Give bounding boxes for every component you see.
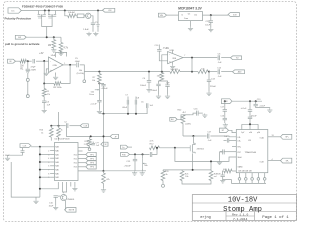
op-amp U1A bbox=[49, 57, 64, 73]
node OUT2 flag bbox=[233, 70, 245, 74]
svg-text:2N7002: 2N7002 bbox=[197, 148, 205, 150]
capacitor C18 0.1uF bbox=[249, 101, 251, 109]
wire C2 to opamp bbox=[36, 60, 49, 62]
wire long vertical rail to PIC area bbox=[103, 114, 105, 171]
resistor R2 10k bbox=[65, 11, 68, 16]
connector J3 input jack bbox=[8, 59, 16, 63]
svg-text:C2: C2 bbox=[64, 121, 66, 123]
svg-text:SEdif: SEdif bbox=[238, 157, 243, 159]
svg-text:GAIN0: GAIN0 bbox=[238, 166, 243, 169]
wire regulator output bbox=[203, 14, 229, 16]
svg-text:RA3: RA3 bbox=[55, 146, 59, 149]
wire U1B minus input bbox=[162, 55, 168, 72]
pin PIC left 2 bbox=[50, 150, 54, 152]
resistor R23 bbox=[162, 169, 164, 172]
pin PIC left 7 bbox=[50, 169, 54, 171]
svg-text:In: In bbox=[182, 14, 184, 16]
wire bottom rail row bbox=[104, 170, 147, 172]
capacitor C15 10uF bbox=[210, 15, 212, 20]
capacitor C3 comp over opamp bbox=[56, 52, 60, 57]
wire divider top bbox=[163, 169, 211, 171]
capacitor C12b 0.1uF bbox=[92, 142, 94, 143]
node JP flag bbox=[110, 134, 118, 138]
svg-text:50k R11: 50k R11 bbox=[171, 69, 180, 71]
node input rail junctions bbox=[44, 10, 46, 12]
svg-text:MCP1804T 3.3V: MCP1804T 3.3V bbox=[178, 7, 202, 11]
pin PIC left 9 bbox=[50, 176, 54, 178]
wire bus tap bbox=[40, 169, 50, 171]
capacitor C6 out coupling bbox=[217, 55, 219, 60]
svg-text:C16: C16 bbox=[221, 115, 224, 117]
pin TPA left 146 bbox=[232, 145, 236, 147]
capacitor C12a bbox=[65, 123, 67, 128]
pin PIC left 3 bbox=[50, 153, 54, 155]
resistor R11 50k feedback bbox=[170, 70, 180, 74]
pin PIC bottom 3 bbox=[63, 182, 67, 192]
wire to C2 bbox=[26, 60, 31, 62]
node 3V3 output flag bbox=[228, 13, 240, 17]
wire C17 to amp bbox=[210, 135, 236, 138]
svg-text:pVd: pVd bbox=[257, 132, 260, 134]
resistor R5 4.7k bbox=[60, 37, 62, 42]
svg-text:1.8uF: 1.8uF bbox=[83, 29, 89, 31]
wire U1B feedback tap bbox=[191, 58, 193, 72]
svg-text:RA1: RA1 bbox=[55, 153, 59, 156]
node pad ring bbox=[27, 74, 29, 79]
ground C8 bbox=[167, 86, 169, 94]
capacitor C7 100uF rail bbox=[99, 82, 103, 85]
pin PIC bottom 2 bbox=[63, 182, 64, 193]
ground U1B V- bbox=[172, 62, 174, 65]
resistor R4 1M bbox=[53, 37, 55, 39]
svg-text:RA0: RA0 bbox=[55, 150, 59, 153]
node PIC right flag 1 bbox=[78, 154, 86, 156]
capacitor C14 100uF bbox=[159, 81, 162, 84]
pin TPA top3 bbox=[257, 124, 259, 129]
svg-text:LIN+: LIN+ bbox=[238, 141, 242, 143]
svg-text:7: 7 bbox=[184, 55, 185, 57]
svg-text:100uF: 100uF bbox=[151, 90, 158, 92]
node PIC right flag 4 bbox=[78, 166, 86, 168]
regulator U5 box bbox=[179, 12, 203, 21]
pin PIC bottom 4 bbox=[70, 182, 72, 187]
potentiometer VR2 50k bbox=[142, 154, 144, 158]
svg-text:(10-20k): (10-20k) bbox=[77, 73, 85, 75]
svg-text:+0.1uF: +0.1uF bbox=[240, 108, 247, 110]
svg-text:6: 6 bbox=[48, 166, 49, 168]
pin TPA top1 bbox=[241, 124, 243, 129]
resistor R1A 1k above PIC bbox=[49, 128, 53, 137]
capacitor C16a bbox=[224, 111, 226, 118]
svg-text:10k: 10k bbox=[92, 80, 95, 82]
svg-text:1k: 1k bbox=[166, 174, 168, 176]
capacitor C2 0.47uF bias top bbox=[158, 45, 160, 50]
svg-text:RA1: RA1 bbox=[55, 176, 59, 179]
connector J1 DC jack bbox=[8, 8, 21, 13]
node VIN flag regulator input bbox=[158, 13, 166, 17]
capacitor C13 220uF bbox=[208, 72, 210, 80]
svg-text:SP-: SP- bbox=[286, 161, 290, 163]
wire VIN input rail bbox=[21, 10, 102, 12]
ground C10a bbox=[8, 152, 23, 156]
node pad circle bbox=[83, 72, 85, 80]
connector J2 activate bbox=[15, 35, 26, 39]
ground C10 bbox=[55, 206, 57, 208]
capacitor C2 input bbox=[32, 59, 34, 63]
wire feedback to output bbox=[61, 65, 70, 84]
svg-text:RC3: RC3 bbox=[74, 167, 77, 169]
svg-text:Polarity Protection: Polarity Protection bbox=[5, 16, 32, 20]
wire R25 top bbox=[210, 161, 212, 170]
capacitor C1 1.8uF bbox=[91, 22, 95, 24]
wire mid rail bbox=[84, 71, 170, 73]
capacitor C10a 10uF bbox=[22, 148, 24, 150]
svg-text:+100uF: +100uF bbox=[101, 88, 109, 90]
svg-text:RA4: RA4 bbox=[55, 165, 59, 168]
wire activate net bbox=[26, 36, 61, 38]
wire C20 to pin bbox=[229, 139, 237, 141]
capacitor C17a bbox=[224, 101, 226, 109]
node flag byp bbox=[220, 128, 229, 132]
pin PIC right 1 bbox=[78, 147, 90, 149]
capacitor C12 1uF gate bbox=[130, 153, 150, 155]
transistor Q5 2N7002 bbox=[189, 145, 191, 151]
pin TPA bottom 2 bbox=[245, 173, 247, 178]
wire C5 to rail bbox=[80, 65, 85, 72]
wire stub up bbox=[58, 112, 60, 126]
pin TPA bottom 1 bbox=[239, 173, 241, 178]
svg-text:1: 1 bbox=[64, 63, 65, 65]
pin PIC left 6 bbox=[50, 165, 54, 167]
ground C14 bbox=[158, 86, 160, 95]
transistor Q3 bbox=[86, 13, 91, 18]
wire rail to C14b bbox=[209, 71, 217, 73]
node SPKR- flag bbox=[281, 158, 292, 163]
wire bias row bbox=[99, 108, 147, 114]
wire gate bus bbox=[42, 19, 52, 26]
capacitor C18b 470uF bbox=[249, 111, 251, 116]
capacitor C17 0.1uF bbox=[206, 134, 208, 139]
svg-text:U5: U5 bbox=[188, 14, 190, 16]
svg-text:.1uF: .1uF bbox=[217, 62, 222, 64]
IC U4 PIC box bbox=[55, 143, 79, 181]
ground regulator COM bbox=[190, 21, 192, 27]
svg-text:10V-18V: 10V-18V bbox=[228, 197, 258, 205]
wire C18 to IC top bbox=[249, 119, 251, 130]
ground drive pot bbox=[98, 102, 100, 110]
svg-text:4: 4 bbox=[48, 158, 49, 160]
wire flag to PIC pin1 bbox=[31, 146, 55, 148]
diode D1 LED indicator bbox=[77, 14, 84, 18]
svg-text:SW: SW bbox=[18, 37, 21, 39]
ground C19 bbox=[256, 106, 270, 109]
capacitor C3 47pF shunt bbox=[27, 61, 29, 69]
capacitor C8c 1uF bbox=[145, 103, 147, 108]
resistor R18 2.2M bbox=[89, 136, 91, 139]
wire JP row bbox=[66, 128, 110, 136]
svg-text:+3V: +3V bbox=[39, 52, 44, 55]
svg-text:470uF: 470uF bbox=[251, 115, 257, 117]
wire mute feedback bbox=[175, 148, 236, 162]
resistor R24 10k bbox=[181, 169, 183, 172]
wire CLS row bbox=[51, 125, 65, 127]
svg-text:MUTE: MUTE bbox=[69, 210, 75, 212]
svg-text:47pF: 47pF bbox=[31, 66, 37, 68]
node PIC right flag 2 bbox=[78, 158, 86, 160]
svg-text:TPA6021A4: TPA6021A4 bbox=[244, 151, 256, 154]
svg-text:1M: 1M bbox=[20, 66, 23, 68]
capacitor C6a 0.1uF drive bbox=[98, 95, 100, 100]
svg-text:.68uF: .68uF bbox=[75, 61, 81, 63]
op-amp U1B bbox=[168, 52, 183, 64]
transistor Q2 P-MOSFET bbox=[48, 11, 50, 15]
wire regulator input bbox=[167, 14, 179, 16]
ground U1A plus input bbox=[46, 69, 48, 72]
svg-text:1k: 1k bbox=[41, 132, 43, 134]
svg-text:1M: 1M bbox=[48, 45, 51, 47]
ground R26 bbox=[103, 183, 105, 188]
node VIN flag bbox=[103, 8, 115, 12]
svg-text:U1A: U1A bbox=[51, 54, 56, 57]
capacitor C5 0.68uF bbox=[76, 63, 78, 68]
wire bus tap bbox=[40, 161, 50, 163]
svg-text:pull to ground to activate: pull to ground to activate bbox=[5, 42, 40, 46]
wire divider bottom bbox=[182, 181, 211, 185]
title block frame bbox=[192, 195, 296, 221]
svg-text:10k A2: 10k A2 bbox=[68, 11, 75, 14]
svg-text:C17: C17 bbox=[221, 107, 224, 109]
svg-text:8: 8 bbox=[48, 173, 49, 175]
wire C10 to Q6 bbox=[58, 195, 61, 197]
svg-text:PP4: PP4 bbox=[90, 167, 94, 169]
pin TPA bottom 5 bbox=[264, 173, 266, 178]
svg-text:LIN-: LIN- bbox=[238, 137, 242, 139]
transistor Q4 bbox=[97, 11, 99, 25]
pin PIC bottom 5 ground bbox=[74, 182, 76, 187]
svg-text:U1B: U1B bbox=[170, 50, 175, 52]
svg-text:2N4401: 2N4401 bbox=[67, 199, 75, 201]
ground C13 bbox=[208, 82, 210, 92]
capacitor C22 10uF gain bbox=[223, 171, 225, 175]
wire feedback U1A bbox=[44, 61, 54, 83]
svg-text:U4 PIC16F1503: U4 PIC16F1503 bbox=[55, 139, 71, 141]
node mini flag 3V bbox=[101, 142, 108, 146]
resistor R4 47k shunt bbox=[43, 84, 45, 89]
pin TPA bottom 3 bbox=[251, 173, 253, 178]
pin TPA bottom 4 bbox=[257, 173, 259, 178]
wire Q5 source bbox=[192, 153, 194, 170]
ground R4 bbox=[53, 48, 55, 50]
svg-text:PGD: PGD bbox=[122, 154, 127, 156]
resistor R3 feedback bbox=[54, 82, 61, 86]
capacitor C14b 0.1uF bbox=[217, 69, 219, 74]
capacitor C9 100uF bias bbox=[148, 72, 150, 81]
ground C7b bbox=[43, 103, 45, 109]
wire PIC pin to rail bbox=[78, 170, 104, 172]
node PGC flag bbox=[121, 145, 129, 149]
svg-text:2: 2 bbox=[48, 151, 49, 153]
wire power rail TPA bbox=[232, 100, 262, 102]
resistor R12 10k out bbox=[198, 70, 208, 74]
svg-text:220uF: 220uF bbox=[210, 86, 217, 88]
node PIC right flag 3 bbox=[78, 162, 86, 164]
node pad R18 bbox=[89, 146, 91, 148]
svg-text:RIN-: RIN- bbox=[238, 147, 242, 149]
svg-text:Rev 1.1.0: Rev 1.1.0 bbox=[232, 213, 248, 216]
svg-text:.68uF: .68uF bbox=[122, 107, 128, 109]
ground R5 bbox=[60, 51, 62, 53]
ground C16 bbox=[204, 113, 206, 115]
wire mute node bbox=[177, 115, 183, 120]
ground C21 bbox=[219, 152, 221, 161]
svg-text:R3 100k: R3 100k bbox=[53, 87, 62, 89]
svg-text:Ca: Ca bbox=[122, 147, 124, 149]
svg-text:RA0: RA0 bbox=[55, 172, 59, 175]
ground C16a bbox=[224, 120, 226, 123]
node mute flag bottom bbox=[65, 208, 76, 213]
transistor Q1 P-MOSFET bbox=[38, 11, 40, 15]
wire PIC left pin bus bbox=[39, 147, 41, 197]
wire mute row bbox=[183, 135, 207, 137]
svg-text:DC: DC bbox=[11, 11, 15, 13]
wire U1B V+ stub bbox=[172, 50, 174, 54]
svg-text:P1: P1 bbox=[95, 22, 97, 24]
wire TPA bottom bus bbox=[231, 182, 266, 184]
svg-text:(LDR): (LDR) bbox=[185, 124, 191, 126]
ground Q4 bbox=[97, 26, 99, 32]
pin PIC left 4 bbox=[50, 157, 54, 159]
svg-text:220R: 220R bbox=[31, 70, 37, 72]
pin PIC bottom 1 bbox=[40, 182, 58, 189]
wire Q5 drain bbox=[193, 136, 195, 143]
ground C15 bbox=[210, 22, 212, 28]
wire long vertical rail x105 bbox=[103, 86, 105, 114]
IC U3 TPA6021 box bbox=[236, 130, 267, 173]
diode D2 shunt bbox=[26, 72, 29, 74]
svg-text:aVd: aVd bbox=[249, 132, 252, 134]
node PGD flag bbox=[121, 153, 130, 157]
svg-text:+0.1uF: +0.1uF bbox=[90, 104, 97, 106]
svg-text:RC0: RC0 bbox=[74, 154, 77, 156]
capacitor C15a 700uF bbox=[134, 154, 136, 159]
svg-text:Out: Out bbox=[194, 13, 198, 16]
capacitor C16 0.1uF mute bbox=[183, 114, 190, 116]
wire Q6 to flag bbox=[64, 201, 66, 210]
svg-text:10uF: 10uF bbox=[205, 24, 211, 26]
node CLS flag bbox=[80, 124, 88, 128]
ground C1 bbox=[92, 25, 94, 32]
svg-text:+700uF: +700uF bbox=[124, 166, 132, 168]
svg-text:FDD6637-F005 F306637-F005: FDD6637-F005 F306637-F005 bbox=[22, 4, 64, 8]
capacitor C20 1uF input bbox=[224, 139, 227, 141]
ground C15a bbox=[134, 161, 136, 171]
resistor R25 bbox=[209, 171, 213, 181]
capacitor C7b 1uF bbox=[43, 97, 45, 101]
transistor Q6 2N4401 bbox=[61, 195, 67, 201]
wire C6 to flag bbox=[221, 57, 230, 59]
svg-text:Page 1 of 1: Page 1 of 1 bbox=[262, 215, 289, 220]
wire opamp1 output bbox=[63, 64, 76, 66]
pin PIC left 8 bbox=[50, 172, 54, 174]
resistor R1 bbox=[20, 59, 26, 63]
node pad sleeve bbox=[27, 81, 29, 94]
capacitor C8a bbox=[127, 97, 129, 100]
wire bus tap bbox=[40, 153, 50, 155]
potentiometer VR1 50k Drive bbox=[98, 82, 100, 85]
wire Q5 gate row bbox=[160, 147, 191, 149]
svg-text:RA2: RA2 bbox=[55, 157, 59, 160]
wire LDR to node bbox=[182, 123, 184, 136]
node OUT1 flag bbox=[231, 56, 242, 60]
svg-text:RA3: RA3 bbox=[55, 161, 59, 164]
svg-text:2.2M: 2.2M bbox=[84, 144, 89, 146]
wire left loop bbox=[11, 162, 40, 197]
pin PIC left 5 bbox=[50, 161, 54, 163]
svg-text:erjng: erjng bbox=[200, 215, 211, 220]
wire bus tap bbox=[40, 176, 50, 178]
ground VR2 bbox=[142, 169, 144, 171]
svg-text:RC2: RC2 bbox=[74, 163, 77, 165]
svg-text:47k: 47k bbox=[47, 94, 50, 96]
ground loop bbox=[35, 197, 37, 200]
ground C9 bbox=[148, 82, 150, 88]
svg-text:1dB 1dB 1dB 1dB: 1dB 1dB 1dB 1dB bbox=[238, 171, 252, 173]
svg-text:R18: R18 bbox=[85, 141, 88, 143]
svg-text:1k: 1k bbox=[61, 129, 63, 131]
capacitor C8 0.1uF bbox=[162, 81, 168, 85]
capacitor C8b bbox=[135, 97, 137, 100]
wire U1B output bbox=[183, 57, 217, 59]
ground U1A V- bbox=[55, 73, 57, 76]
svg-text:7-1-2014: 7-1-2014 bbox=[233, 218, 248, 221]
node pad R23 bbox=[162, 181, 164, 185]
node SPKR+ flag bbox=[281, 134, 292, 139]
pin PIC right short bbox=[78, 150, 83, 152]
node flag left of PIC bbox=[20, 144, 31, 148]
wire input signal bbox=[16, 60, 21, 62]
wire C14b to flag bbox=[221, 71, 232, 73]
svg-text:RA5: RA5 bbox=[55, 169, 59, 172]
node PWR flag bbox=[222, 99, 233, 104]
svg-text:Com: Com bbox=[184, 18, 189, 20]
svg-text:.1uF: .1uF bbox=[217, 76, 222, 78]
svg-text:RC1: RC1 bbox=[74, 158, 77, 160]
svg-text:100uF: 100uF bbox=[140, 85, 147, 87]
svg-text:10k: 10k bbox=[185, 176, 188, 178]
resistor R26 47k bbox=[103, 171, 105, 173]
node AUD flag mute input bbox=[170, 117, 177, 121]
ground C22 bbox=[223, 177, 232, 184]
svg-text:OPA: OPA bbox=[52, 64, 57, 67]
resistor R1B 1k above PIC bbox=[57, 128, 61, 137]
capacitor C10 10uF bbox=[54, 195, 58, 197]
wire cap to CLS flag bbox=[69, 125, 80, 127]
